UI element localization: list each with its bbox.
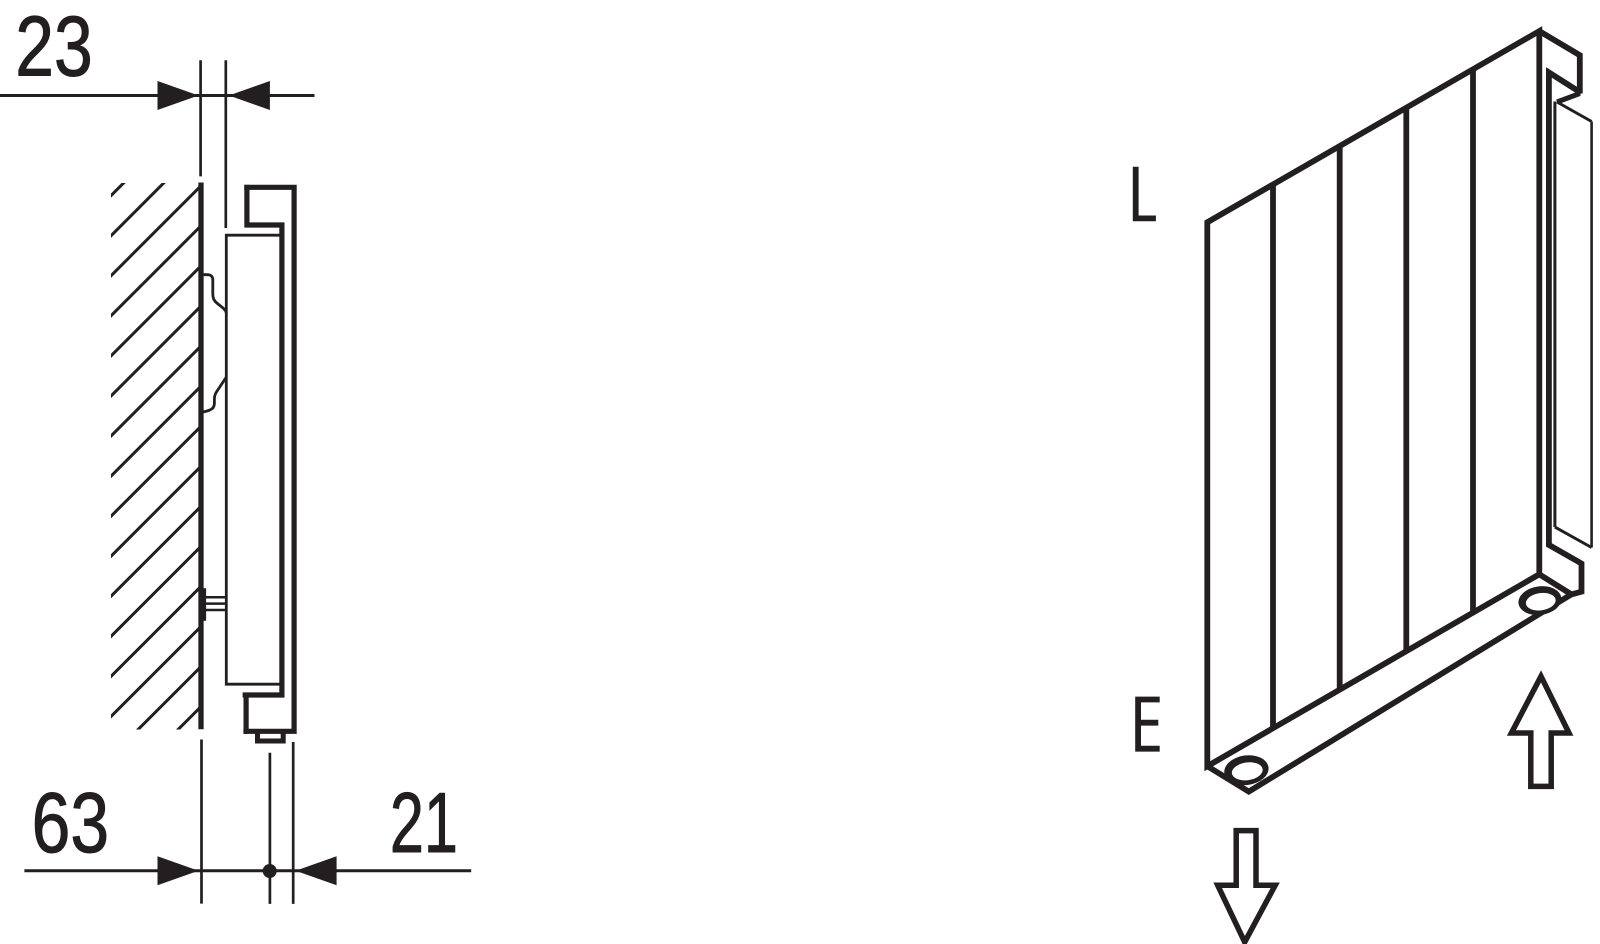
- flow arrow up (inlet): [1511, 676, 1569, 786]
- extension line pipe center: [269, 753, 272, 904]
- flow arrow down (outlet): [1218, 831, 1276, 943]
- extension line wall top: [199, 60, 202, 176]
- label E: [1138, 700, 1160, 749]
- wall surface line: [198, 183, 203, 730]
- wall clip upper: [203, 275, 226, 314]
- bottom tapping left (oval): [1222, 752, 1270, 788]
- fastener screw lines: [205, 597, 227, 610]
- radiator cover outer profile (section): [243, 187, 294, 731]
- 3D radiator panel divider 2: [1337, 146, 1343, 689]
- wall hatching: [0, 150, 758, 740]
- extension line cover front: [292, 742, 295, 904]
- label L: [1136, 167, 1156, 219]
- 3D back panel bottom edge: [1555, 527, 1592, 547]
- svg-text:63: 63: [32, 777, 110, 871]
- arrowhead bottom right (points left): [296, 856, 337, 885]
- wall clip lower: [203, 377, 226, 412]
- bottom tapping right (oval): [1517, 583, 1564, 617]
- 3D back panel rear edge: [1590, 122, 1593, 548]
- arrowhead top left (points right): [158, 81, 199, 110]
- arrowhead bottom left (points right): [158, 856, 199, 885]
- drain plug below cover: [258, 733, 284, 742]
- dimension line top: [0, 94, 315, 97]
- 3D side hook rail: [1549, 72, 1582, 594]
- extension line wall bottom: [200, 740, 203, 904]
- dimension junction dot: [263, 864, 277, 878]
- 3D radiator front panel outline: [1207, 31, 1539, 766]
- fastener boss on wall: [203, 588, 207, 621]
- radiator cover inner profile (section): [243, 185, 285, 734]
- 3D radiator panel divider 3: [1403, 108, 1409, 651]
- 3D radiator panel divider 1: [1270, 185, 1276, 728]
- arrowhead top right (points left): [229, 81, 270, 110]
- extension line panel back top: [224, 60, 227, 228]
- 3D back panel front edge: [1553, 102, 1556, 528]
- 3D radiator panel divider 4: [1470, 69, 1476, 612]
- 3D hook zigzag thick: [1557, 94, 1580, 103]
- svg-text:23: 23: [15, 0, 93, 94]
- 3D top depth edge and back corner: [1539, 31, 1580, 93]
- inner water panel (section): [226, 235, 280, 684]
- svg-text:21: 21: [390, 775, 458, 870]
- 3D radiator bottom face band: [1207, 574, 1571, 791]
- dimension line bottom: [24, 869, 471, 872]
- 3D hook zigzag thin: [1557, 102, 1592, 122]
